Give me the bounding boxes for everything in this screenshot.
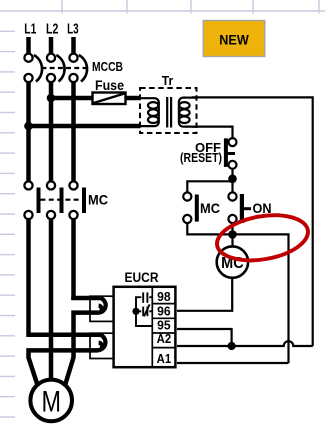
wire L1 stub — [26, 37, 31, 54]
NEW badge — [203, 21, 264, 57]
breaker MCCB pole 3 — [69, 54, 87, 82]
annotation red ellipse — [214, 209, 312, 267]
svg-text:98: 98 — [157, 289, 171, 304]
node EUCR internal — [132, 308, 139, 315]
contactor MC main pole 2 — [47, 181, 62, 219]
wire funnel right — [65, 358, 73, 385]
wire MC coil to 96 — [177, 278, 232, 311]
wire A2 terminal with hop — [177, 341, 313, 346]
wire phase L2 upper — [49, 82, 54, 184]
svg-text:(RESET): (RESET) — [180, 150, 222, 165]
wire L2 stub — [49, 37, 54, 54]
transformer Tr core — [166, 97, 168, 128]
wire CT1 return — [74, 313, 99, 358]
wire phase L3 upper — [71, 82, 76, 184]
svg-text:L3: L3 — [67, 20, 79, 37]
EUCR internal contact glyph — [136, 292, 152, 326]
contactor MC main pole 1 — [24, 181, 38, 219]
svg-text:A1: A1 — [157, 351, 172, 366]
EUCR CT window box 2 — [90, 333, 114, 358]
node L1 tap — [24, 122, 33, 131]
wire OFF to node — [231, 169, 233, 193]
wire phase L1 upper — [26, 82, 31, 184]
svg-text:MC: MC — [200, 201, 220, 216]
wire phase L3 mid — [71, 219, 76, 300]
wire phase L1 mid — [26, 219, 31, 337]
transformer Tr primary winding — [140, 98, 159, 126]
transformer Tr dashed box — [140, 88, 197, 133]
CT1 loop — [98, 298, 106, 313]
pushbutton ON (NO) — [228, 192, 251, 223]
wire L2 to fuse — [51, 96, 93, 101]
wire L3 stub — [71, 37, 76, 54]
svg-text:MC: MC — [88, 193, 108, 208]
wire MC aux bottom — [187, 223, 232, 234]
svg-text:Tr: Tr — [162, 73, 174, 88]
relay EUCR body — [114, 287, 176, 367]
wire Tr secondary top to right rail — [192, 97, 313, 346]
svg-text:NEW: NEW — [219, 33, 249, 48]
svg-text:95: 95 — [157, 317, 171, 332]
wire 95 terminal — [177, 329, 232, 346]
contactor MC link dashed — [41, 199, 85, 201]
wire L3 to CT1 — [74, 296, 101, 298]
svg-text:Fuse: Fuse — [95, 78, 124, 93]
wire L1 to Tr primary bottom — [29, 124, 141, 129]
wire fuse to Tr — [126, 96, 141, 101]
wire funnel left — [29, 358, 38, 385]
breaker MCCB pole 1 — [24, 54, 42, 82]
svg-text:L2: L2 — [46, 20, 58, 37]
CT2 loop — [98, 335, 105, 350]
motor M — [30, 380, 72, 422]
fuse F — [93, 93, 126, 105]
wire branch top — [187, 181, 232, 192]
svg-text:A2: A2 — [157, 331, 172, 346]
contactor MC main pole 3 — [69, 181, 84, 219]
breaker MCCB pole 2 — [47, 54, 65, 82]
wire junction to A1 branch — [233, 234, 289, 363]
coil MC — [217, 246, 248, 277]
svg-text:EUCR: EUCR — [125, 270, 159, 285]
wire L1 to CT2 — [29, 333, 101, 338]
svg-text:M: M — [41, 386, 61, 419]
EUCR CT window box 1 — [90, 296, 114, 321]
node fuse tap on L2 — [47, 94, 56, 103]
transformer Tr secondary winding — [179, 98, 198, 127]
contact MC aux (NO) — [183, 192, 197, 223]
wire phase L2 mid — [49, 219, 54, 381]
wire ON bottom — [231, 223, 233, 247]
node junction below ON — [228, 230, 237, 239]
wire Tr secondary bottom to OFF — [192, 127, 233, 138]
EUCR terminal column — [152, 287, 175, 367]
pushbutton OFF (NC) — [226, 138, 237, 169]
node below OFF — [228, 175, 237, 184]
svg-text:MCCB: MCCB — [92, 60, 123, 74]
svg-text:L1: L1 — [24, 20, 36, 37]
node 95/A2 — [228, 342, 236, 350]
wire CT2 return — [29, 350, 99, 358]
wire A1 terminal — [177, 362, 289, 364]
svg-text:96: 96 — [157, 303, 171, 318]
breaker link dashed — [42, 67, 87, 69]
